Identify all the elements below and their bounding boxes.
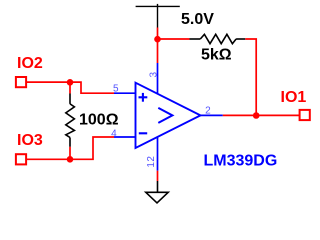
connector IO3 [16,132,43,164]
svg-text:5: 5 [113,84,119,95]
ground symbol [146,181,168,203]
resistor R1 [66,94,75,147]
op-amp minus input marking [139,132,147,134]
svg-text:IO1: IO1 [281,89,307,106]
junction dot output node [253,112,260,119]
svg-text:100Ω: 100Ω [79,112,119,129]
junction dot VCC node [154,36,161,43]
svg-text:5.0V: 5.0V [181,11,214,28]
wire: VCC node to resistor R2 [158,38,190,40]
wire: pin 12 to ground [157,171,159,181]
pin 5 stub [114,92,136,94]
wire: R1 bottom to node [69,147,71,160]
resistor R2 [190,34,246,43]
op-amp plus input marking [139,93,148,102]
svg-text:5kΩ: 5kΩ [201,47,232,64]
wire: IO2 to pin 5 [26,82,114,93]
svg-text:2: 2 [205,105,211,116]
op-amp comparator chevron marking [158,108,172,123]
svg-text:12: 12 [146,156,157,168]
junction dot IO3 / R1 bottom [67,156,74,163]
svg-text:IO2: IO2 [17,55,43,72]
connector IO2 [16,55,43,87]
junction dot IO2 / R1 top [67,79,74,86]
pin 3 stub [157,63,159,94]
wire: IO3 to pin 4 [26,137,114,159]
op-amp U1 comparator body [136,83,201,148]
wire: R2 to output node [245,39,256,115]
pin 4 stub [114,136,136,138]
svg-text:3: 3 [148,72,159,78]
svg-text:IO3: IO3 [17,132,43,149]
pin 12 stub [157,137,159,171]
svg-text:4: 4 [111,129,117,140]
svg-text:LM339DG: LM339DG [204,153,278,170]
wire: node to R1 top [69,82,71,93]
pin 2 stub [201,114,223,116]
wire: VCC to node and down to pin 3 [157,28,159,64]
wire: output net pin2 to IO1 [223,114,300,116]
power supply V1 bar symbol [136,4,180,28]
connector IO1 [281,89,310,120]
